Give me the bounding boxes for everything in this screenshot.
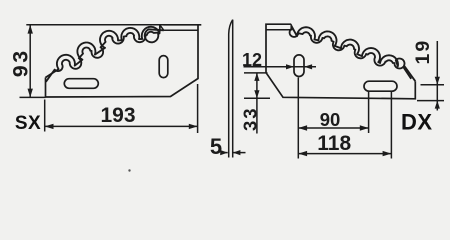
dim 118 line <box>298 153 391 155</box>
svg-text:118: 118 <box>317 132 351 155</box>
right plate vertical slot <box>294 55 304 77</box>
dim 90 left extension line <box>297 78 299 159</box>
right plate DX serrated edge outer line <box>291 26 415 82</box>
left plate SX serrated edge outer line <box>46 25 161 77</box>
svg-text:193: 193 <box>100 104 135 127</box>
dim 93 line <box>29 25 31 98</box>
dim 33 upper extension line <box>244 72 268 74</box>
dim 33 lower extension line <box>244 97 270 99</box>
dim 19 lower extension line <box>417 100 444 102</box>
dim 90 right extension line <box>368 92 370 133</box>
dim 93 top extension line <box>26 24 163 26</box>
left plate wave-to-top junction notch <box>160 25 164 30</box>
right plate horizontal slot <box>364 81 397 91</box>
dim 193 line <box>45 125 198 127</box>
right plate wave-to-top junction tick <box>290 24 292 30</box>
right plate outline <box>266 24 415 99</box>
dim 5 right arrow <box>233 152 246 154</box>
left plate horizontal slot <box>64 79 98 89</box>
svg-text:93: 93 <box>9 48 33 77</box>
dim 93 bottom extension line <box>20 96 46 98</box>
dim 33 line <box>256 73 258 134</box>
svg-text:90: 90 <box>320 109 341 130</box>
dim 90 line <box>298 127 368 129</box>
dim 193 right extension line <box>197 84 199 133</box>
left plate SX serrated edge inner line <box>46 29 164 82</box>
scan speck <box>128 169 130 171</box>
svg-text:19: 19 <box>412 39 434 65</box>
right plate DX serrated edge inner line <box>290 28 412 78</box>
left plate outline <box>46 25 202 97</box>
svg-text:DX: DX <box>401 109 433 134</box>
svg-text:33: 33 <box>240 106 261 131</box>
dim 12 line <box>244 66 317 68</box>
left plate vertical slot <box>159 56 168 78</box>
dim 19 line <box>436 41 438 111</box>
left plate top edge inner line <box>164 29 198 31</box>
dim 193 left extension line <box>44 100 46 132</box>
right plate top edge inner line <box>266 29 292 31</box>
svg-text:SX: SX <box>15 113 41 134</box>
dim 5 left arrow <box>223 152 228 154</box>
dim 19 upper extension line <box>421 84 445 86</box>
dim 118 right extension line <box>390 92 392 159</box>
blade side view strip <box>229 20 233 158</box>
